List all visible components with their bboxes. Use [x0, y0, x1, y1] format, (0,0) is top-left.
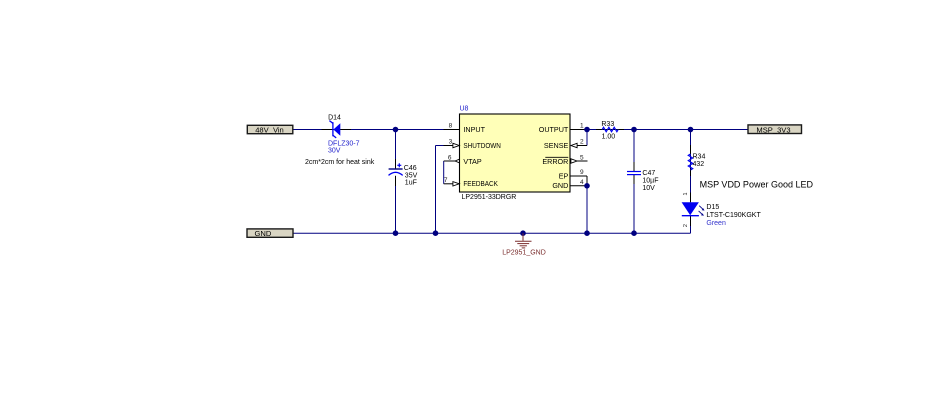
- svg-text:3: 3: [449, 139, 453, 146]
- svg-text:Green: Green: [706, 220, 726, 227]
- svg-text:D14: D14: [328, 115, 341, 122]
- svg-text:10µF: 10µF: [642, 178, 658, 185]
- svg-text:GND: GND: [255, 229, 272, 238]
- svg-text:5: 5: [580, 154, 584, 161]
- svg-text:8: 8: [449, 123, 453, 130]
- svg-text:R34: R34: [693, 154, 706, 161]
- svg-text:MSP VDD Power Good LED: MSP VDD Power Good LED: [700, 179, 814, 189]
- svg-text:1uF: 1uF: [405, 180, 417, 187]
- svg-text:1: 1: [580, 123, 584, 130]
- svg-text:VTAP: VTAP: [463, 157, 481, 166]
- svg-text:DFLZ30-7: DFLZ30-7: [328, 141, 360, 148]
- svg-text:30V: 30V: [328, 148, 341, 155]
- svg-text:LTST-C190KGKT: LTST-C190KGKT: [706, 212, 761, 219]
- svg-text:7: 7: [444, 177, 448, 184]
- svg-text:EP: EP: [559, 171, 569, 180]
- svg-text:9: 9: [580, 169, 584, 176]
- svg-text:432: 432: [693, 161, 705, 168]
- svg-text:ERROR: ERROR: [542, 157, 568, 166]
- svg-text:D15: D15: [706, 204, 719, 211]
- svg-text:R33: R33: [601, 121, 614, 128]
- svg-text:2: 2: [580, 139, 584, 146]
- svg-text:U8: U8: [460, 106, 469, 113]
- svg-text:OUTPUT: OUTPUT: [539, 125, 569, 134]
- svg-text:MSP_3V3: MSP_3V3: [756, 125, 790, 134]
- svg-text:35V: 35V: [405, 172, 418, 179]
- svg-text:1: 1: [683, 192, 689, 195]
- svg-text:10V: 10V: [642, 185, 655, 192]
- svg-text:2cm*2cm for heat sink: 2cm*2cm for heat sink: [305, 159, 375, 166]
- svg-text:C46: C46: [404, 165, 417, 172]
- svg-text:C47: C47: [642, 170, 655, 177]
- svg-text:1.00: 1.00: [602, 134, 616, 141]
- svg-text:4: 4: [580, 179, 584, 186]
- svg-text:INPUT: INPUT: [463, 125, 485, 134]
- svg-text:LP2951-33DRGR: LP2951-33DRGR: [462, 194, 517, 201]
- svg-text:LP2951_GND: LP2951_GND: [502, 250, 546, 257]
- svg-text:2: 2: [683, 224, 689, 227]
- svg-text:SENSE: SENSE: [544, 141, 569, 150]
- svg-text:FEEDBACK: FEEDBACK: [463, 179, 498, 188]
- svg-text:6: 6: [448, 154, 452, 161]
- svg-text:SHUTDOWN: SHUTDOWN: [463, 141, 501, 150]
- svg-text:48V_Vin: 48V_Vin: [255, 125, 284, 134]
- svg-text:GND: GND: [552, 181, 568, 190]
